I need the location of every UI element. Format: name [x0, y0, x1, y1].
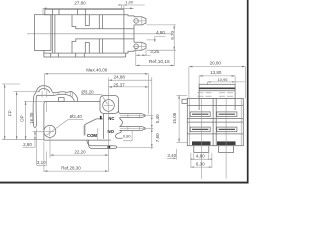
svg-text:16,30: 16,30 — [29, 112, 34, 124]
OP extension line — [14, 91, 41, 93]
dim 2,80 vertical — [34, 131, 36, 147]
svg-text:NC: NC — [108, 116, 114, 121]
top view body outline — [44, 15, 134, 17]
front view lever dome — [36, 86, 53, 94]
dim 3,40 line — [167, 157, 176, 159]
side view top block dashes row1 — [198, 92, 234, 94]
dim 2,80 leader line — [23, 146, 36, 148]
dim Max40,00 right extension — [148, 74, 150, 114]
svg-text:Max.40,00: Max.40,00 — [86, 68, 108, 73]
top view inner rib upper — [98, 15, 100, 29]
side view body inner horizontals — [187, 104, 243, 106]
dim 3,25 extensions — [135, 49, 137, 67]
dim 0,80 extension — [123, 131, 132, 141]
dim 15,06 extensions — [177, 94, 188, 96]
svg-text:10,95: 10,95 — [218, 77, 228, 82]
svg-text:4,80: 4,80 — [156, 30, 165, 35]
side view terminal row1 right — [217, 112, 237, 117]
front view plunger — [59, 98, 65, 102]
svg-text:20,00: 20,00 — [210, 60, 222, 65]
svg-text:3,10: 3,10 — [37, 160, 46, 165]
front view NC terminal — [120, 114, 146, 118]
side view terminal row1 left — [190, 112, 210, 117]
side view left tab — [182, 99, 187, 103]
top view left block — [34, 15, 51, 51]
dim 4,80 leader — [155, 37, 166, 42]
front view lever arm upper — [34, 93, 36, 96]
top view centerline — [27, 33, 171, 35]
dim Max40,00 line — [45, 73, 149, 75]
front view COM bottom extension — [117, 147, 153, 149]
top view lid seam lines — [51, 15, 53, 53]
top view bottom bump verticals — [50, 53, 52, 57]
dim 6,30 line — [191, 166, 212, 168]
dim 16,30 line — [25, 101, 27, 139]
top view internal notch upper — [72, 15, 134, 29]
front view lever arm lower line — [37, 94, 75, 101]
side view terminal row2 right — [217, 127, 237, 132]
top view inner slot upper — [85, 15, 89, 26]
front view COM terminal dark dot — [108, 146, 111, 149]
dim hole extension upper — [108, 78, 110, 100]
svg-text:27,80: 27,80 — [74, 1, 86, 6]
front view internal post — [102, 114, 104, 139]
side view bottom terminal left — [194, 146, 209, 153]
side view terminal row2 left — [190, 127, 210, 132]
dim 2,80 hole extension — [33, 130, 44, 132]
dim 13,80 line — [199, 75, 235, 77]
frame right border — [247, 0, 249, 183]
top view inner slot lower — [85, 43, 89, 54]
side view top block line — [199, 90, 235, 92]
front view lever bracket — [41, 91, 43, 98]
svg-text:3,40: 3,40 — [167, 153, 176, 158]
dim 15,06 line — [178, 95, 180, 142]
svg-text:1,00: 1,00 — [125, 0, 133, 5]
top view lid ticks — [52, 9, 54, 15]
front view lever arm to hinge — [52, 92, 78, 102]
side view top block dark band — [199, 87, 235, 89]
dim 24,88 line — [109, 79, 153, 81]
5,40 extension lines — [146, 115, 154, 117]
svg-text:2,80: 2,80 — [23, 142, 32, 147]
top view terminal lower — [134, 42, 146, 50]
side view bottom terminal left dark bar — [192, 141, 211, 145]
dim Ref,28,30 extensions — [43, 142, 45, 172]
dim 4,80 bottom extensions — [193, 153, 195, 160]
svg-text:25,37: 25,37 — [113, 82, 125, 87]
svg-text:6,30: 6,30 — [196, 162, 205, 167]
svg-text:Ø3,40: Ø3,40 — [70, 114, 83, 119]
dim FP line — [4, 84, 6, 140]
dim Ref,28,30 line — [44, 170, 109, 172]
bottom reference extension line — [2, 139, 44, 141]
svg-text:FP: FP — [7, 110, 12, 116]
front view NO terminal — [120, 127, 146, 131]
svg-text:Ref,10,15: Ref,10,15 — [149, 59, 170, 65]
dim 10,95 extension — [207, 82, 209, 85]
side view top block dashes row2 — [198, 95, 234, 97]
svg-text:4,80: 4,80 — [196, 154, 205, 159]
front view lever ticks — [52, 93, 54, 95]
front view internal post 2 — [97, 128, 99, 140]
dim Ref,10,15 right extension — [173, 50, 175, 66]
dim 22,20 / 3,10 line — [50, 154, 109, 156]
svg-text:5,40: 5,40 — [155, 114, 160, 123]
svg-text:22,20: 22,20 — [74, 150, 86, 155]
dim 5,40/7,60 line — [151, 77, 153, 149]
front view edge bump + fillet below NO — [115, 130, 122, 138]
svg-text:3,25: 3,25 — [150, 49, 159, 54]
dim 25,37 line — [109, 86, 149, 88]
dim OP line — [16, 92, 18, 140]
dim 9,70 line — [173, 25, 175, 50]
side view bottom terminal right dark bar — [217, 141, 236, 145]
svg-text:7,60: 7,60 — [155, 133, 160, 142]
top view terminal upper hole — [134, 19, 139, 24]
front view lever hinge ticks — [70, 91, 72, 96]
svg-text:13,80: 13,80 — [210, 70, 222, 75]
dim 3,40 extension — [175, 149, 177, 160]
front view hole bottom-left — [46, 101, 48, 112]
side view center channel — [212, 98, 214, 145]
top view bottom shelf — [44, 53, 126, 57]
svg-text:OP: OP — [20, 115, 25, 122]
svg-text:Ø3,20: Ø3,20 — [81, 89, 94, 94]
dim Ø3,20 leader — [81, 95, 107, 105]
dim 13,80 extensions — [198, 76, 200, 84]
svg-text:0,80: 0,80 — [123, 134, 131, 139]
svg-text:Ref,28,30: Ref,28,30 — [61, 165, 81, 170]
frame bottom border — [0, 182, 249, 184]
dim 20,00 line — [189, 66, 246, 68]
svg-text:15,06: 15,06 — [172, 112, 177, 124]
dim 10,95 line — [208, 81, 246, 83]
front view hole top-right — [103, 100, 115, 112]
dim 20,00 extensions — [188, 67, 190, 99]
svg-text:24,88: 24,88 — [114, 75, 126, 80]
side view block walls into body — [198, 98, 200, 110]
top view raised lid — [45, 9, 124, 15]
dim 4,80 bottom line — [191, 158, 212, 160]
front view COM terminal bend — [87, 140, 117, 148]
front view body left/top/bottom — [24, 100, 46, 102]
FP extension line — [2, 83, 20, 85]
front view lever tip hook — [33, 96, 36, 128]
front view edge bump between terminals — [120, 118, 123, 127]
side view bottom terminal left centerline — [200, 99, 202, 179]
dim 27,80 line — [43, 7, 134, 9]
front view internal contact arm — [85, 119, 103, 136]
side view bottom terminal right — [219, 146, 234, 153]
dim 6,30 extensions — [190, 153, 192, 168]
dim 3,25 line — [136, 54, 151, 56]
top view terminal lower hole — [134, 44, 139, 49]
svg-text:COM: COM — [87, 133, 97, 138]
top view inner rib lower — [98, 39, 100, 53]
lever tip extension — [36, 129, 38, 166]
side view top block — [199, 84, 235, 98]
dim Ø3,40 leader — [68, 118, 84, 120]
dim Ref,10,15 line — [136, 64, 174, 66]
dim Max40,00 left extension — [43, 74, 45, 91]
dim 22,20 left extension — [49, 138, 51, 158]
top view internal notch lower — [72, 39, 134, 53]
side view bottom terminal right centerline — [225, 99, 227, 179]
front view contact dark — [100, 116, 102, 120]
dim 9,70 extensions — [147, 24, 177, 26]
side view main body — [187, 98, 243, 145]
dim 1,00 line — [118, 4, 145, 6]
dim hole extension lower — [108, 111, 110, 171]
top view terminal upper — [134, 17, 146, 25]
side view inner walls — [188, 98, 190, 145]
dim 1,00 extensions — [121, 5, 123, 9]
